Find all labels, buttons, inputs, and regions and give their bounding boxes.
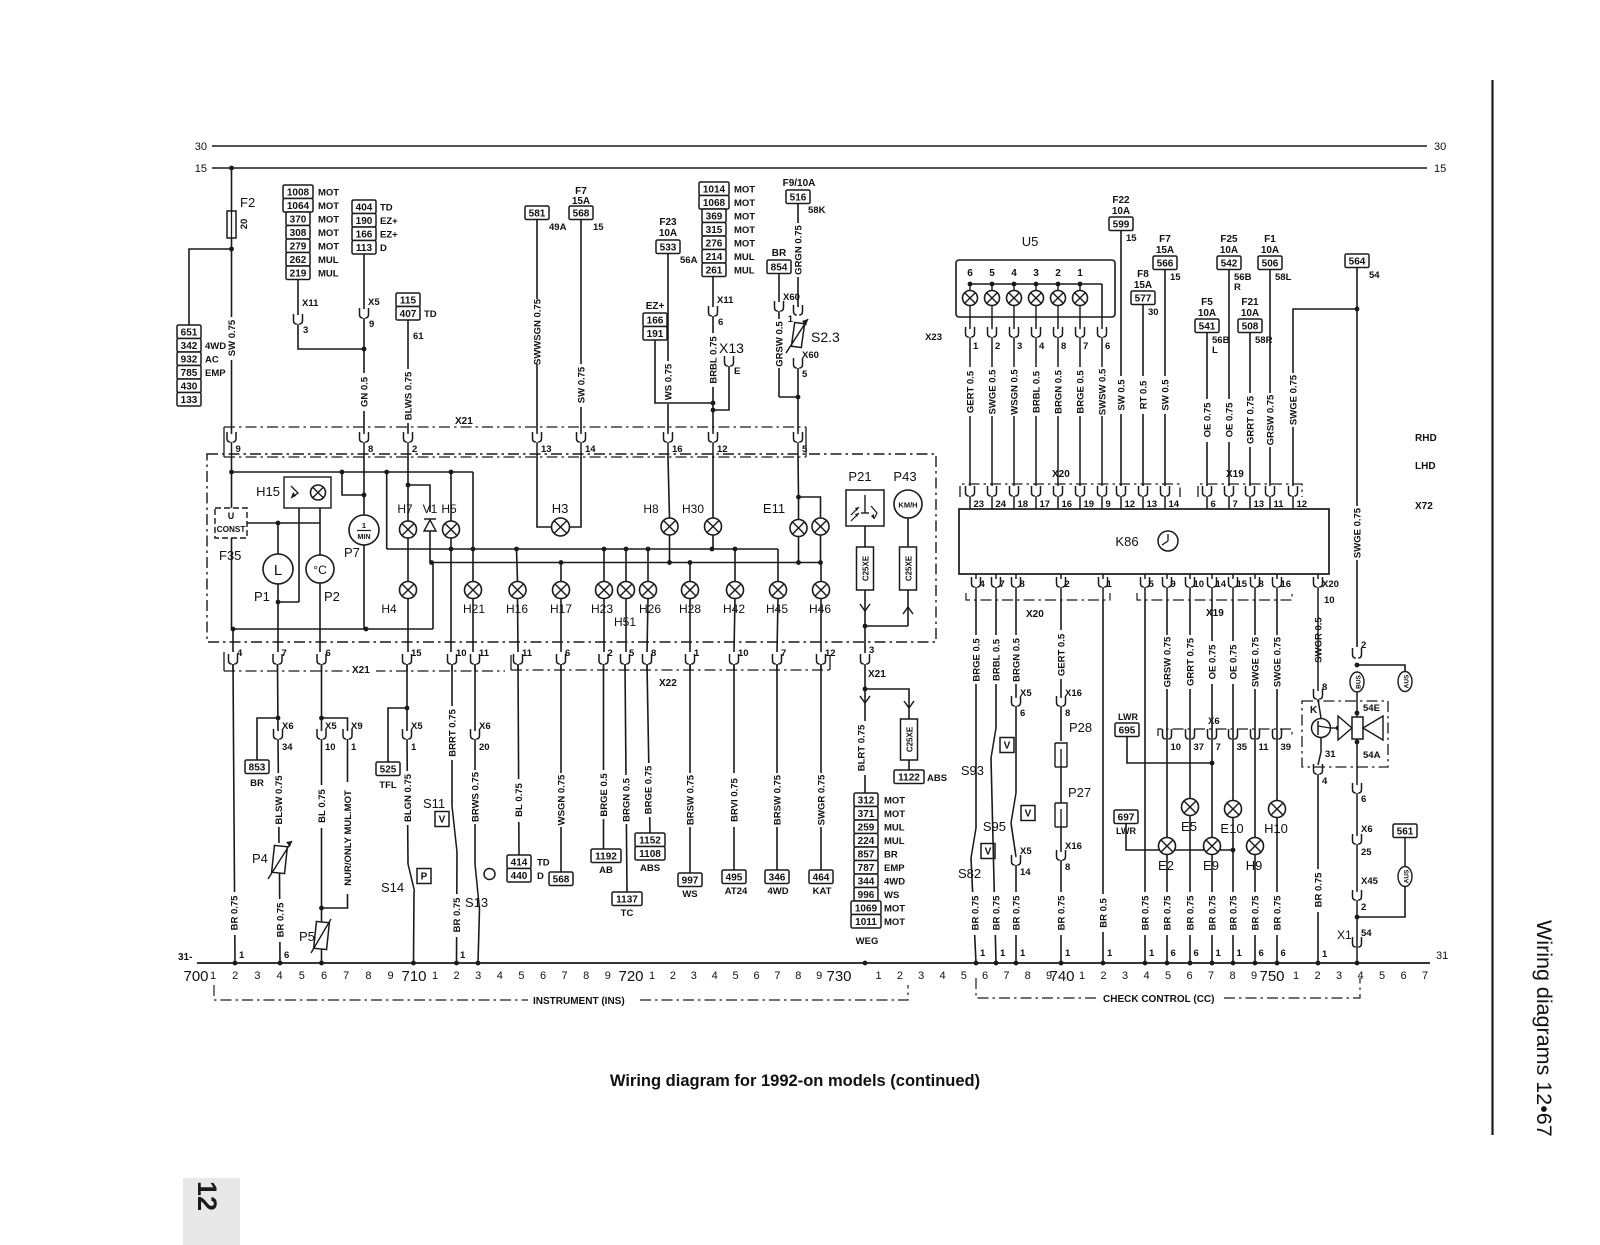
svg-text:X5: X5 [325,721,337,732]
svg-text:F2: F2 [240,195,255,210]
svg-text:1: 1 [1322,949,1328,960]
svg-text:MOT: MOT [318,242,339,253]
svg-text:4: 4 [497,970,503,982]
svg-text:4WD: 4WD [884,877,905,888]
svg-text:F7: F7 [1159,234,1171,245]
connector X21 top pin 12 [709,432,718,442]
svg-text:566: 566 [1157,258,1174,269]
connector X21 pin 3 (speedo wire) [861,654,870,664]
connector X21 bottom pin 15 [403,654,412,664]
svg-text:7: 7 [282,648,287,659]
connector X21 bottom pin 7 [273,654,282,664]
junction on pin7 wire [276,716,281,721]
connector X23 pin 4 [1035,317,1037,329]
svg-text:BRGE 0.5: BRGE 0.5 [972,638,983,682]
svg-text:BRRT 0.75: BRRT 0.75 [448,709,459,757]
connector X6 pin 20 [471,729,480,739]
connector X6 pin 25 [1356,793,1358,836]
svg-text:1014: 1014 [703,184,726,195]
svg-text:9: 9 [816,970,822,982]
svg-text:BR 0.75: BR 0.75 [971,895,982,931]
svg-text:P: P [421,872,428,883]
U5 internal bus [970,283,1102,285]
wire E9 to earth, label BR 0.75 [1211,855,1213,964]
svg-text:KAT: KAT [813,886,832,897]
connector X23 pin 2 [991,317,993,329]
svg-text:P1: P1 [254,589,270,604]
bracket X20 bottom [966,593,1110,600]
connector X6 pin 39 [1273,729,1282,739]
connector X22 pin 2 [599,654,608,664]
svg-text:9: 9 [1171,579,1176,590]
switch S2.3 [791,322,804,347]
svg-text:EZ+: EZ+ [646,301,665,312]
svg-text:F1: F1 [1264,234,1276,245]
svg-text:MOT: MOT [318,201,339,212]
wire K86-1 to earth, label BR 0.5 [1102,600,1104,963]
svg-text:X45: X45 [1361,876,1379,887]
connector X19 pin 7 [1225,486,1234,496]
wire H15 lamp terminal down to P2 [319,508,321,555]
svg-text:BL 0.75: BL 0.75 [317,788,328,822]
connector X20 pin 12 [1117,486,1126,496]
wire X13-E to junction [713,366,729,410]
svg-text:MOT: MOT [884,796,905,807]
svg-text:35: 35 [1237,742,1248,753]
connector K86 bottom pin 5 [1144,574,1146,579]
svg-text:1: 1 [432,970,438,982]
svg-text:BR: BR [884,850,898,861]
svg-text:6: 6 [326,648,331,659]
svg-text:4: 4 [1322,776,1328,787]
wire from line 15 to fuse F2 [231,168,233,211]
wire H10 to earth, label BR 0.75 [1276,818,1278,964]
svg-text:6: 6 [753,970,759,982]
warning lamp E2 [1159,838,1176,855]
wire E2 to earth, label BR 0.75 [1166,855,1168,964]
svg-text:E11: E11 [763,501,785,516]
junction to X9 branch [319,716,324,721]
wire X5-10 to P5, label BL 0.75 [321,739,323,922]
svg-text:BRGE 0.5: BRGE 0.5 [599,773,610,817]
svg-text:X11: X11 [717,295,734,306]
svg-text:H4: H4 [381,602,397,616]
svg-text:5: 5 [802,369,808,380]
svg-text:F9/10A: F9/10A [783,178,816,189]
connector X5 pin 14 [1011,823,1016,857]
oval terminal AUS lower [1398,867,1412,887]
svg-text:599: 599 [1113,219,1130,230]
svg-text:15A: 15A [1156,245,1174,256]
bus line 15 [212,167,1427,169]
svg-text:8: 8 [583,970,589,982]
svg-text:2: 2 [232,970,238,982]
wire X22-2 to box 1192, label BRGE 0.5 [603,664,605,849]
svg-text:11: 11 [522,648,533,659]
svg-text:X5: X5 [411,721,423,732]
svg-text:GERT 0.5: GERT 0.5 [966,370,977,413]
svg-text:V1: V1 [423,502,438,516]
connector X21 top pin 8 [360,432,369,442]
svg-text:6: 6 [1194,948,1199,959]
connector K86 bottom pin 4 [975,574,977,579]
internal ground bus bottom [233,628,433,630]
svg-text:TC: TC [621,908,634,919]
code boxes 1152/1108 ABS [635,833,665,847]
svg-text:2: 2 [897,970,903,982]
svg-text:3: 3 [1017,341,1022,352]
connector X19 pin 6 [1203,486,1212,496]
svg-text:7: 7 [1083,341,1088,352]
svg-text:EZ+: EZ+ [380,230,398,241]
svg-text:X6: X6 [1361,824,1373,835]
earth bus 31 [197,962,1430,964]
svg-text:BR 0.75: BR 0.75 [1012,895,1023,931]
svg-text:D: D [380,243,387,254]
svg-text:2: 2 [1100,970,1106,982]
temperature gauge P2 [306,555,334,583]
wire transistor emitter to connector 31/4 [1320,737,1322,752]
svg-text:730: 730 [826,968,851,985]
svg-text:GRRT 0.75: GRRT 0.75 [1186,637,1197,686]
connector K86 bottom pin 10 [1189,574,1191,579]
warning lamp H28 [689,563,691,582]
svg-text:854: 854 [771,262,788,273]
svg-text:3: 3 [475,970,481,982]
svg-text:SWGR 0.75: SWGR 0.75 [817,774,828,825]
svg-text:GN 0.5: GN 0.5 [360,376,371,407]
svg-text:S82: S82 [958,866,981,881]
warning lamp H4 [407,538,409,582]
svg-text:AB: AB [599,865,613,876]
svg-text:1: 1 [973,341,979,352]
wire P28 to P27 [1060,767,1062,803]
wire X22-1 to box 997, label BRSW 0.75 [689,664,691,873]
svg-text:407: 407 [400,309,417,320]
connector X22 pin 5 [621,654,630,664]
svg-text:X5: X5 [1020,688,1032,699]
svg-text:1122: 1122 [898,772,920,783]
svg-text:15: 15 [593,222,604,233]
svg-text:12: 12 [825,648,836,659]
svg-text:S13: S13 [465,895,488,910]
svg-text:8: 8 [1025,970,1031,982]
svg-text:MOT: MOT [884,904,905,915]
wire K86-2 to X16-8, label GERT 0.5 [1060,600,1062,698]
connector above S2.3 pin 1 [794,305,803,315]
junction node [362,347,367,352]
svg-text:414: 414 [511,857,528,868]
code box stack 115/407 TD [396,293,420,307]
instrument cluster dash-dot border [207,454,936,642]
connector K86 bottom pin 2 [1060,574,1062,579]
svg-text:1152: 1152 [639,835,661,846]
svg-text:RT 0.5: RT 0.5 [1139,380,1150,409]
svg-text:E: E [734,366,740,377]
svg-text:3: 3 [1033,268,1039,279]
svg-text:369: 369 [706,211,723,222]
svg-text:SWGE 0.5: SWGE 0.5 [988,369,999,415]
tachometer P7 [349,515,379,545]
svg-text:BRBL 0.5: BRBL 0.5 [1032,370,1043,413]
svg-text:F8: F8 [1137,269,1149,280]
connector X20 pin 17 [1032,486,1041,496]
svg-text:10A: 10A [1241,308,1259,319]
svg-text:H15: H15 [256,484,280,499]
connector X20 pin 23 [966,486,975,496]
svg-text:9: 9 [388,970,394,982]
svg-text:BR 0.75: BR 0.75 [452,897,463,933]
wire S82 to earth, label BR 0.75 [971,858,976,963]
svg-text:BL 0.75: BL 0.75 [514,782,525,816]
svg-text:V: V [1025,809,1032,820]
svg-text:X23: X23 [925,332,942,343]
svg-text:1: 1 [460,950,466,961]
svg-text:8: 8 [795,970,801,982]
svg-text:695: 695 [1119,725,1136,736]
wire P7 bottom to ground bus [363,545,365,629]
svg-text:506: 506 [1262,258,1279,269]
svg-text:H46: H46 [809,602,831,616]
connector box C25XE (P43) [900,547,917,590]
svg-text:1: 1 [1000,948,1006,959]
svg-text:31: 31 [1436,950,1448,962]
wire C25XE to junction with arrow [864,590,866,626]
connector X20 pin 14 [1161,486,1170,496]
code box stack 1008..219 MOT/MUL [283,185,313,199]
svg-text:X21: X21 [352,665,370,676]
svg-text:750: 750 [1259,968,1284,985]
svg-text:2: 2 [1361,902,1366,913]
svg-text:1192: 1192 [595,851,617,862]
svg-text:BRGE 0.5: BRGE 0.5 [1076,370,1087,414]
svg-text:MUL: MUL [884,836,905,847]
connector X21 top pin 5 [794,432,803,442]
svg-text:440: 440 [511,871,528,882]
svg-text:BUS: BUS [1356,674,1363,688]
connector X5 pin 9 [360,308,369,318]
connector X20 pin 19 [1076,486,1085,496]
svg-text:219: 219 [290,268,307,279]
svg-text:GRGN 0.75: GRGN 0.75 [794,224,805,274]
svg-text:1064: 1064 [287,201,310,212]
svg-text:113: 113 [356,243,373,254]
svg-text:6: 6 [718,317,723,328]
warning lamp H17 [560,563,562,582]
connector row X21 bottom dash-dot [223,652,225,671]
wire F2 to connector X21 pin 9, label SW 0.75 [231,238,233,431]
svg-text:996: 996 [858,890,875,901]
connector X16 pin 8 lower [1060,827,1062,852]
wire X5-9 down to X21 pin 8, label GN 0.5 [363,318,365,431]
svg-text:15: 15 [1170,272,1181,283]
svg-text:58L: 58L [1275,272,1292,283]
U5 output wires to X20 [969,345,971,486]
code box stack 651/342/932/785/430/133 [177,325,201,339]
svg-text:X13: X13 [719,340,744,356]
page number tab 12 [183,1178,240,1245]
svg-text:2: 2 [995,341,1000,352]
svg-text:1: 1 [1237,948,1243,959]
connector X21 bottom pin 4 [229,654,238,664]
wire X22-12 to box 464, label SWGR 0.75 [820,664,822,870]
svg-text:MOT: MOT [884,809,905,820]
connector box C25XE (ABS) [901,719,918,760]
svg-text:262: 262 [290,255,307,266]
bus line 30 [212,145,1427,147]
svg-text:D: D [537,871,544,882]
wire 516 to switch S2.3, label GRGN 0.75 [797,204,799,308]
earth bus junction dots [233,961,238,966]
U5 lamp 2 [1057,284,1059,291]
svg-text:533: 533 [660,242,677,253]
svg-text:AUS: AUS [1404,869,1411,883]
svg-text:P28: P28 [1069,720,1092,735]
warning lamp H10 [1269,801,1286,818]
warning lamp H16 [517,549,518,582]
wire X6-34 to P4, label BLSW 0.75 [278,739,279,843]
svg-text:X20: X20 [1052,469,1070,480]
wire to switch S13, label BRWS 0.75 [474,739,476,864]
svg-text:BR 0.75: BR 0.75 [1141,895,1152,931]
wire 697 to E10 column [1126,824,1233,851]
svg-text:WSGN 0.5: WSGN 0.5 [1010,369,1021,415]
connector X60 upper [778,274,780,303]
svg-text:INSTRUMENT (INS): INSTRUMENT (INS) [533,996,625,1007]
svg-text:CONST: CONST [217,525,246,534]
svg-text:BLRT 0.75: BLRT 0.75 [857,724,868,771]
branch to AUS connector upper [1357,665,1405,672]
svg-text:BRGE 0.75: BRGE 0.75 [644,765,655,814]
svg-text:X19: X19 [1206,608,1224,619]
connector X23 pin 8 [1057,317,1059,329]
wire 568 to X21 pin 14, label SW 0.75 [580,220,582,432]
branch 564 to X19-12, label SWGE 0.75 [1293,309,1357,486]
svg-text:X11: X11 [302,298,319,309]
warning lamp H42 [734,549,736,582]
svg-text:30: 30 [1148,307,1159,318]
svg-text:SWGE 0.75: SWGE 0.75 [1251,636,1262,687]
svg-text:MUL: MUL [318,269,339,280]
svg-text:1137: 1137 [616,894,638,905]
wire X22-7 to box 346, label BRSW 0.75 [776,664,778,870]
code box 568 [549,872,573,886]
U5 lamp 5 [991,284,993,291]
svg-text:WEG: WEG [856,936,879,947]
svg-text:OE 0.75: OE 0.75 [1203,402,1214,438]
svg-text:4WD: 4WD [767,886,788,897]
check control unit K86 [959,509,1329,574]
svg-text:464: 464 [813,872,830,883]
svg-text:740: 740 [1049,968,1074,985]
svg-text:7: 7 [343,970,349,982]
svg-text:1: 1 [694,648,700,659]
warning lamp H9 [1247,838,1264,855]
warning lamp H23 [603,549,605,582]
connector X23 pin 3 [1013,317,1015,329]
svg-text:15: 15 [411,648,422,659]
svg-text:5: 5 [518,970,524,982]
svg-text:1: 1 [1216,948,1222,959]
svg-text:5: 5 [629,648,635,659]
svg-text:6: 6 [565,648,570,659]
wire X22-11 to boxes 414/440, label BL 0.75 [518,664,519,855]
svg-text:MOT: MOT [734,225,755,236]
svg-text:3: 3 [869,645,874,656]
connector X22 pin 7 [773,654,782,664]
svg-text:1: 1 [649,970,655,982]
wire 542 to X19-7, label OE 0.75 [1228,270,1230,487]
branch to code box 853 [257,718,278,760]
svg-text:H5: H5 [441,502,457,516]
wire BUS oval to bridge and out [1356,692,1358,717]
connector K86 bottom pin 14 [1211,574,1213,579]
svg-text:H30: H30 [682,502,704,516]
wire P21 to connector C25XE [864,526,866,547]
svg-text:10A: 10A [659,228,677,239]
svg-text:697: 697 [1118,812,1135,823]
svg-text:MUL: MUL [318,255,339,266]
svg-text:49A: 49A [549,222,567,233]
code box 581 49A [525,206,549,220]
svg-text:1108: 1108 [639,849,661,860]
svg-text:S2.3: S2.3 [811,329,840,345]
svg-text:E5: E5 [1181,819,1197,834]
svg-text:853: 853 [249,762,266,773]
svg-text:SWGE 0.75: SWGE 0.75 [1289,374,1300,425]
svg-text:L: L [274,562,282,579]
svg-text:9: 9 [605,970,611,982]
svg-text:191: 191 [647,329,664,340]
svg-text:561: 561 [1397,826,1414,837]
svg-text:6: 6 [1171,948,1176,959]
svg-text:31-: 31- [178,952,192,963]
svg-text:564: 564 [1349,256,1366,267]
connector X21 top pin 2 [404,432,413,442]
connector X21 top pin 9 [227,432,236,442]
svg-text:370: 370 [290,214,307,225]
connector X21 bottom pin 10 [448,654,457,664]
connector X23 pin 6 [1101,317,1103,329]
svg-text:SWGR 0.5: SWGR 0.5 [1314,617,1325,663]
wire 506 to X19-11, label GRSW 0.75 [1269,270,1271,487]
svg-text:S93: S93 [961,763,984,778]
wire 533 to X21 pin 16, label WS 0.75 [667,254,669,432]
wire transistor to bridge [1330,727,1338,729]
wire 564 down to P39 circuit [1356,268,1358,648]
svg-text:10: 10 [456,648,467,659]
svg-text:166: 166 [647,315,664,326]
wire X21-2 branch to V1 [408,457,430,512]
svg-text:EMP: EMP [884,863,905,874]
svg-text:430: 430 [181,381,198,392]
riser bus top to lamp bus [386,472,388,549]
svg-text:C25XE: C25XE [862,555,871,581]
svg-text:508: 508 [1242,321,1259,332]
svg-text:OE 0.75: OE 0.75 [1229,644,1240,680]
connector X20 pin 13 [1139,486,1148,496]
wire X11-3 to junction with X5 wire [298,324,364,349]
connector X5 pin 1 [403,729,412,739]
svg-text:3: 3 [691,970,697,982]
wire 577 to X20-13, label RT 0.5 [1142,305,1144,487]
code box 1192 AB [591,849,621,863]
svg-text:1: 1 [210,970,216,982]
svg-text:5: 5 [1149,579,1155,590]
svg-text:LHD: LHD [1415,461,1436,472]
wires X21 pins into box [231,454,233,458]
svg-text:H8: H8 [643,502,659,516]
